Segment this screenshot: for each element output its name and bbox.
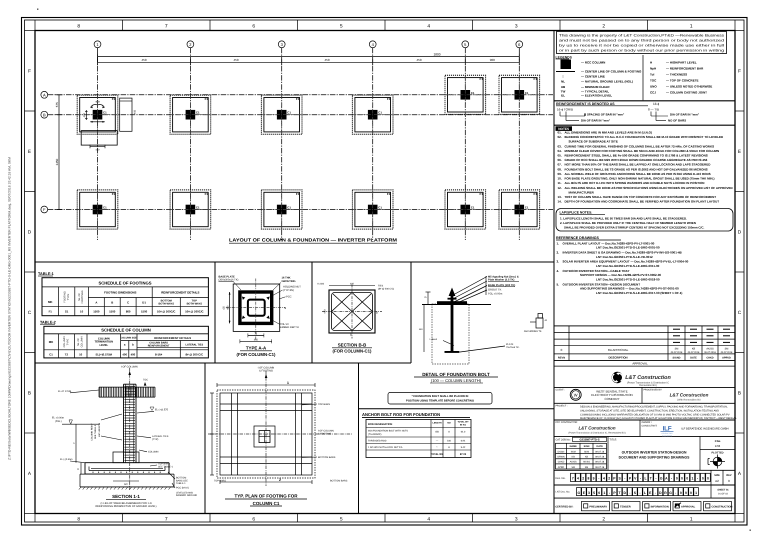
svg-text:TABLE-1: TABLE-1 [176,482,186,485]
svg-text:09.07.2018: 09.07.2018 [704,351,716,354]
svg-text:-: - [598,477,599,481]
panel divider: section B-B / bolt detail vertical [410,262,412,363]
svg-text:900: 900 [490,58,495,62]
svg-text:ROD DESIGNATION: ROD DESIGNATION [368,423,392,426]
legends divider vertical [642,55,644,100]
svg-text:P.No: P.No [715,440,721,443]
svg-text:Tol: Tol [650,73,654,77]
svg-text:1500: 1500 [141,310,148,314]
svg-text:& FOOTING: & FOOTING [259,370,273,373]
footing F2 bottom row grid 2 [170,190,211,229]
svg-text:NOT MORE THAN 50% OF THE BARS: NOT MORE THAN 50% OF THE BARS SHALL BE L… [565,163,712,167]
grid bubble 2 [187,41,194,48]
table schedule of column [44,326,209,358]
svg-text:ILF BERATENDE INGENIEURE GMBH: ILF BERATENDE INGENIEURE GMBH [681,428,728,431]
svg-text:REINFORCEMENT IS DENOTED AS: REINFORCEMENT IS DENOTED AS [556,102,615,106]
svg-text:SKM: SKM [571,450,576,453]
svg-text:TYPE A-A: TYPE A-A [246,345,267,350]
svg-text:COLUMN: COLUMN [148,451,159,454]
svg-text:SCHEDULE OF FOOTINGS: SCHEDULE OF FOOTINGS [98,281,151,286]
svg-text:LNT Doc.No.GE3501-PTD-S-LE-DRG: LNT Doc.No.GE3501-PTD-S-LE-DRG-0018-00 [596,278,660,282]
svg-text:T2: T2 [65,352,69,356]
svg-text:2: 2 [608,477,610,481]
svg-text:(FOR COLUMN-C1): (FOR COLUMN-C1) [237,352,276,357]
svg-text:NO: NO [447,422,451,425]
svg-text:A=400: A=400 [317,283,324,286]
svg-text:B: B [111,300,113,304]
svg-text:DATE: DATE [690,356,697,359]
svg-text:TOC: TOC [650,79,657,83]
svg-text:CAT JOB No :: CAT JOB No : [556,438,572,441]
svg-text:5: 5 [340,23,343,29]
svg-text:09.07.18: 09.07.18 [595,461,605,464]
svg-text:F1: F1 [205,97,209,101]
svg-text:450: 450 [134,109,137,114]
legends symbol column square [556,60,575,72]
svg-text:S1: S1 [65,310,69,314]
top dimension line total 1800 [98,52,520,60]
svg-text:01.: 01. [558,130,562,134]
svg-text:C1: C1 [378,206,382,210]
svg-text:C1: C1 [471,206,475,210]
svg-text:TABLE-2: TABLE-2 [40,320,56,324]
svg-text:R: R [664,491,667,495]
svg-text:SM: SM [725,347,729,350]
svg-text:F1: F1 [480,192,484,196]
svg-text:ℓ OF COLUMN: ℓ OF COLUMN [121,365,138,368]
svg-text:450: 450 [419,328,423,331]
svg-text:0: 0 [681,477,683,481]
svg-text:E: E [649,491,652,495]
svg-text:REINFORCEMENT STEEL SHALL BE F: REINFORCEMENT STEEL SHALL BE Fe-500 GRAD… [565,154,708,158]
svg-text:10# @ 200C/C: 10# @ 200C/C [157,310,175,314]
TYPE A-A title [237,345,276,357]
svg-text:F1: F1 [296,192,300,196]
svg-text:COMPANY: COMPANY [605,397,620,401]
panel divider: typ plan / anchor bolt vertical [358,363,360,514]
svg-text:2: 2 [602,23,605,29]
svg-text:2: 2 [189,42,192,47]
svg-text:C: C [127,300,129,304]
svg-text:— HIGH/PART LEVEL: — HIGH/PART LEVEL [666,61,697,65]
epc contractor / consultant row [554,420,735,436]
svg-text:1.: 1. [557,241,560,245]
svg-text:C1: C1 [471,91,475,95]
svg-text:C1: C1 [103,206,107,210]
svg-text:— MINIMUM CLEAR: — MINIMUM CLEAR [581,85,610,89]
svg-text:1: 1 [695,491,697,495]
svg-text:3: 3 [588,491,590,495]
notes divider rule [554,124,735,126]
svg-text:C1: C1 [196,206,200,210]
svg-text:CCJ: CCJ [650,91,656,95]
svg-text:LNT Doc.No.GE3501-PTD-S-LE-DRG: LNT Doc.No.GE3501-PTD-S-LE-DRG-0011-00 [596,264,660,268]
panel divider: section 1-1 / typ plan vertical [204,363,206,514]
svg-text:REINFORCING PERSPECTIVE OF GRO: REINFORCING PERSPECTIVE OF GROUND LEVEL) [96,505,157,508]
svg-text:— COLUMN CASTING JOINT: — COLUMN CASTING JOINT [666,91,707,95]
svg-text:L-Bend: L-Bend [430,338,438,341]
svg-text:Doc. No.: Doc. No. [556,477,566,480]
svg-text:F1: F1 [387,97,391,101]
plan grid row lines A B F [48,95,553,210]
svg-text:UB: UB [561,85,566,89]
foundation bolt title [414,372,498,383]
footing F1 top row grid 1 [77,95,118,134]
footing F3 bottom row grid 3 [261,190,302,229]
svg-text:BOTH WAYS: BOTH WAYS [187,303,203,306]
svg-text:F1: F1 [205,192,209,196]
svg-text:1: 1 [287,381,289,385]
svg-text:—: — [436,441,439,443]
p.no cell [700,440,735,450]
svg-text:SURFACE OF SUBGRADE AT SITE: SURFACE OF SUBGRADE AT SITE [569,140,618,144]
svg-text:1: 1 [691,477,693,481]
svg-text:APPROVAL: APPROVAL [632,361,648,365]
svg-text:E: E [738,149,741,154]
svg-text:GROUT TK: GROUT TK [488,289,502,292]
svg-text:14.: 14. [558,200,562,204]
svg-text:APRVD: APRVD [722,356,731,359]
svg-text:450: 450 [83,113,86,118]
svg-text:DIA OF BAR IN "mm": DIA OF BAR IN "mm" [581,119,611,123]
svg-text:7: 7 [572,477,574,481]
svg-text:400: 400 [350,283,355,286]
svg-text:F1: F1 [387,192,391,196]
svg-text:LAYOUT OF COLUMN & FOUNDATION: LAYOUT OF COLUMN & FOUNDATION — INVERTER… [229,238,397,243]
L&T Construction logo block [554,372,735,388]
svg-text:8-16#: 8-16# [155,352,163,356]
svg-text:C1: C1 [49,352,53,356]
svg-text:TENDER: TENDER [620,505,631,508]
svg-text:H: H [650,61,652,65]
panel divider: bolt detail / anchor bolt table horizontal [359,408,555,410]
svg-text:1: 1 [96,42,99,47]
svg-text:E: E [28,149,31,154]
svg-text:D: D [28,229,32,234]
svg-text:450: 450 [226,305,229,310]
svg-text:MK: MK [48,300,53,304]
svg-text:10# @ 200C/C: 10# @ 200C/C [185,310,203,314]
svg-text:450: 450 [435,431,440,434]
reference drawings heading [556,236,621,240]
svg-text:APPROVAL: APPROVAL [681,505,696,508]
svg-text:450: 450 [96,149,101,152]
svg-text:A: A [95,300,97,304]
grid bubble 1 [94,41,101,48]
SECTION B-B title [332,342,372,353]
typ plan of footing drawing [208,367,352,487]
svg-text:08.: 08. [558,167,562,171]
reinforcement notation diagram right [648,108,700,123]
svg-text:C1: C1 [378,111,382,115]
svg-text:-: - [697,477,698,481]
svg-text:TYP. PLAN OF FOOTING FOR: TYP. PLAN OF FOOTING FOR [235,494,299,499]
panel divider: tables band bottom [35,362,411,364]
svg-text:PCC: PCC [286,295,292,298]
svg-text:TIES: TIES [378,285,384,288]
svg-text:400: 400 [122,352,127,356]
svg-text:-: - [640,477,641,481]
svg-text:BOTTOM BARS: BOTTOM BARS [330,480,348,483]
svg-text:REINFORCEMENT: REINFORCEMENT [148,345,170,348]
svg-text:SM: SM [585,466,589,469]
footing F5 top row grid 5 [445,75,486,114]
svg-text:KB: KB [572,455,576,458]
svg-text:F1: F1 [112,97,116,101]
svg-text:COLUMN C1: COLUMN C1 [253,501,280,506]
svg-text:450: 450 [254,339,259,342]
svg-text:(8# @ 200 C/C): (8# @ 200 C/C) [378,287,394,290]
svg-text:CHKD: CHKD [706,356,713,359]
svg-text:2: 2 [279,478,281,482]
footing F4 top row grid 4 [352,95,393,134]
section 1-1 title [96,494,157,508]
svg-text:APRD: APRD [558,466,565,469]
svg-text:TITLE:: TITLE: [610,438,618,441]
footing F2 top row grid 2 [170,95,211,134]
svg-text:8: 8 [77,23,80,29]
footing F4 bottom row grid 4 [352,190,393,229]
svg-text:0: 0 [707,477,709,481]
svg-text:M16 FOUNDATION BOLT WITH NUTS: M16 FOUNDATION BOLT WITH NUTS [368,430,408,433]
grid bubble 3 [278,41,285,48]
svg-text:— CENTER LINE: — CENTER LINE [581,75,605,79]
svg-text:LEVEL: LEVEL [99,344,108,347]
svg-text:— THICKNESS: — THICKNESS [666,73,687,77]
TABLE-2 label [40,320,56,324]
svg-text:13.: 13. [558,195,562,199]
svg-text:AK/SS: AK/SS [583,461,590,464]
svg-text:09.07.18: 09.07.18 [595,466,605,469]
svg-text:09.07.2018: 09.07.2018 [688,351,700,354]
svg-text:W: W [574,393,578,398]
svg-text:ALL BOLTS ARE HOT D.I.P.D WITH: ALL BOLTS ARE HOT D.I.P.D WITH SPRING WA… [565,181,705,185]
svg-text:G: G [669,491,672,495]
svg-text:P: P [629,477,632,481]
svg-text:PCC (M-10): PCC (M-10) [176,487,189,490]
segment dimension line 450 spacings [98,58,520,65]
svg-text:GRADE OF RCC SHALL BE M25 WITH: GRADE OF RCC SHALL BE M25 WITH 20mm DOWN… [565,158,708,162]
detail of foundation bolt drawing [419,276,548,365]
svg-text:8: 8 [77,516,80,522]
svg-text:D: D [623,491,626,495]
svg-text:7: 7 [165,23,168,29]
svg-text:87.09: 87.09 [460,453,467,456]
svg-text:b: b [132,343,134,347]
svg-text:— UNLESS NOTED OTHERWISE: — UNLESS NOTED OTHERWISE [666,85,712,89]
svg-text:1: 1 [690,23,693,29]
svg-text:LAP/SPLICE NOTES:: LAP/SPLICE NOTES: [560,211,593,215]
grid bubble A [41,91,48,98]
svg-text:(FOR COLUMN-C1): (FOR COLUMN-C1) [333,348,372,353]
plan title [229,238,397,244]
svg-text:450: 450 [96,100,101,103]
svg-text:75x75x6 TK.: 75x75x6 TK. [506,346,520,349]
svg-text:DESCRIPTION: DESCRIPTION [608,355,627,359]
svg-text:NO OF BARS: NO OF BARS [668,119,686,123]
panel divider: plan / details horizontal [35,261,554,263]
svg-text:09.07.2018: 09.07.2018 [671,351,683,354]
svg-text:F: F [28,68,31,73]
plotted cell with registration mark [708,451,725,468]
svg-text:B: B [738,390,741,395]
svg-text:A: A [28,471,32,476]
svg-text:BLINDING CONCRETE/PCC TO ALL R: BLINDING CONCRETE/PCC TO ALL R.C.C FOUND… [565,135,724,139]
svg-text:CERTIFIED BY:: CERTIFIED BY: [555,506,573,509]
title cell [610,438,691,459]
svg-text:— RCC COLUMN: — RCC COLUMN [581,61,605,65]
svg-text:SCHEDULE OF COLUMN: SCHEDULE OF COLUMN [101,328,151,333]
svg-text:2: 2 [582,477,584,481]
svg-text:THREADED ROD: THREADED ROD [368,440,387,443]
notes heading [556,126,573,131]
grid bubble 4 [369,41,376,48]
grid bubble B [41,111,48,118]
svg-text:— TOP OF CONCRETE: — TOP OF CONCRETE [666,79,699,83]
svg-text:7: 7 [165,516,168,522]
svg-text:REV: REV [726,474,731,477]
svg-text:C1: C1 [525,91,529,95]
reinforcement denoted heading [556,102,659,106]
svg-text:FOOTINGS: FOOTINGS [81,290,84,303]
svg-text:0: 0 [702,477,704,481]
svg-text:0: 0 [728,479,730,483]
footing F1 grid1 inner dimension marks [83,100,105,122]
reinforcement notation diagram left [557,108,625,123]
svg-text:11.: 11. [558,181,562,185]
left vertical dimension line [55,95,63,210]
svg-text:PRELIMINARY: PRELIMINARY [589,505,607,508]
svg-text:DESIGN & ENGINEERING, MANUFACT: DESIGN & ENGINEERING, MANUFACTURING/PROC… [580,406,728,409]
svg-text:G: G [577,491,580,495]
svg-text:GROUTING: GROUTING [282,280,296,283]
svg-text:POSITION USING TEMPLATE BEFORE: POSITION USING TEMPLATE BEFORE CONCRETIN… [406,400,474,403]
svg-text:TYPE: TYPE [67,293,70,300]
svg-text:TOTAL WT: TOTAL WT [457,421,469,424]
svg-text:-: - [675,491,676,495]
svg-text:D: D [738,229,742,234]
svg-text:D: D [659,491,662,495]
svg-text:400: 400 [131,352,136,356]
svg-text:L&T Construction: L&T Construction [670,393,709,398]
svg-text:DEPTH OF FOUNDATION AND COORDI: DEPTH OF FOUNDATION AND COORDINATE SHALL… [565,200,720,204]
svg-text:OWNER /: OWNER / [642,421,652,424]
revision table [554,326,735,361]
svg-text:COMMISSIONING INCLUDING WARRAN: COMMISSIONING INCLUDING WARRANTED OBLIGA… [580,413,730,416]
svg-text:and must not be passed on to: and must not be passed on to any third p… [559,39,724,43]
svg-text:03.: 03. [558,144,562,148]
project row [554,405,737,421]
svg-text:BOTTOM BARS: BOTTOM BARS [318,456,336,459]
svg-text:B/2: B/2 [124,483,128,486]
svg-text:T: T [619,491,622,495]
svg-text:MANUFACTURER: MANUFACTURER [569,190,595,194]
svg-text:DATE: DATE [597,445,604,448]
svg-text:DSGN: DSGN [558,450,565,453]
svg-text:6: 6 [518,42,521,47]
svg-text:UNLOADING, STORAGE AT SITE, SI: UNLOADING, STORAGE AT SITE, SITE DEVELOP… [580,409,719,412]
foundation bolt note box [388,393,492,405]
svg-text:CHKD: CHKD [558,461,565,464]
svg-text:575: 575 [55,102,59,107]
svg-text:S: S [618,477,621,481]
svg-text:CONSULTANT:: CONSULTANT: [642,424,658,427]
svg-text:D1: D1 [142,300,146,304]
svg-text:SKM: SKM [584,450,589,453]
svg-text:F1: F1 [534,77,538,81]
svg-text:SECTION 1-1: SECTION 1-1 [112,494,140,499]
svg-text:40: 40 [545,319,548,322]
svg-text:TOP BARS: TOP BARS [214,480,226,483]
svg-text:UNO: UNO [650,85,657,89]
footing F6 top row grid 6 [499,75,540,114]
svg-text:-: - [639,491,640,495]
svg-text:TOC: TOC [143,379,148,382]
svg-text:450: 450 [324,58,329,62]
svg-text:01 OF 02: 01 OF 02 [718,493,729,496]
svg-text:800: 800 [126,310,131,314]
svg-text:09.07.18: 09.07.18 [595,450,605,453]
svg-text:B: B [376,312,378,315]
grid bubble F [41,206,48,213]
svg-text:FGL ±0.00m: FGL ±0.00m [488,292,502,295]
approval band [554,361,735,366]
svg-text:10: 10 [80,310,84,314]
svg-text:EL (-)0.55m: EL (-)0.55m [60,458,73,461]
legends left list [561,61,642,98]
plan grid column lines 1-6 [98,48,520,240]
lnt doc no row with character boxes [554,485,735,498]
svg-text:F1: F1 [480,77,484,81]
doc no row with character boxes [554,470,735,485]
svg-text:1/63: 1/63 [715,444,721,448]
svg-text:3: 3 [515,23,518,29]
svg-text:(TYP): (TYP) [152,438,158,441]
svg-text:L: L [645,477,647,481]
svg-text:B: B [28,390,31,395]
svg-text:C1: C1 [103,111,107,115]
svg-text:NpH: NpH [650,67,656,71]
svg-text:8 — T/B: 8 — T/B [648,108,659,112]
svg-text:REINFORCEMENT DETAILS: REINFORCEMENT DETAILS [161,291,199,295]
svg-text:MAINTENANCE OF 10,000KW (AC) S: MAINTENANCE OF 10,000KW (AC) SOLAR PV PO… [580,417,737,420]
svg-text:RA APPROVAL: RA APPROVAL [608,348,629,352]
svg-text:SECTION B-B: SECTION B-B [338,342,367,347]
svg-text:LNT Doc. No.: LNT Doc. No. [556,491,571,494]
svg-text:F1: F1 [296,97,300,101]
svg-text:L&T Construction: L&T Construction [625,375,671,381]
svg-text:— TYPICAL DETAIL: — TYPICAL DETAIL [581,89,609,93]
svg-text:INFORMATION: INFORMATION [651,505,669,508]
svg-text:8: 8 [587,477,589,481]
svg-text:12.: 12. [558,186,562,190]
svg-text:5.: 5. [557,282,560,286]
panel divider: right notes column [553,31,555,514]
svg-text:KB: KB [585,455,589,458]
svg-text:0: 0 [686,477,688,481]
svg-text:-: - [624,477,625,481]
svg-text:SHEET 01: SHEET 01 [717,489,729,492]
svg-text:a: a [124,343,126,347]
svg-text:0: 0 [690,491,692,495]
svg-text:LNT Doc.No.GE3501-PTD-S-LE-VD-: LNT Doc.No.GE3501-PTD-S-LE-VD-0012 [596,255,653,259]
footing F1 bottom row grid 1 [77,190,118,229]
svg-text:TEST OF COLUMN SHALL HAVE RANG: TEST OF COLUMN SHALL HAVE RANGE ON TOP C… [565,195,717,199]
client row WBSEDC [554,387,735,403]
svg-text:4.: 4. [557,269,560,273]
section 1-1 drawing [52,365,197,497]
svg-text:C: C [738,310,742,315]
